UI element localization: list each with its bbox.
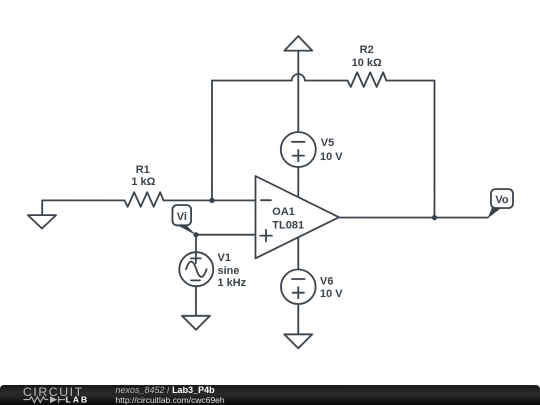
footer bar: [0, 385, 540, 405]
ground (below V1): [182, 316, 210, 330]
wire: VCC stem down through hop to V5: [297, 51, 299, 132]
wire: Vi node down to V1: [195, 235, 197, 253]
resistor R1: [124, 192, 163, 207]
V5 plus sign: [293, 155, 304, 157]
junction node output: [432, 215, 437, 220]
svg-text:Vo: Vo: [495, 194, 509, 206]
V6 plus sign: [293, 292, 304, 294]
V1 sine wave: [186, 262, 207, 277]
wire: V6 to ground: [297, 304, 299, 334]
power arrow (VCC): [284, 36, 312, 51]
svg-text:Vi: Vi: [177, 211, 187, 223]
wire: output wire: [339, 217, 488, 219]
voltage source V6: [281, 269, 316, 304]
svg-text:10 V: 10 V: [320, 288, 343, 300]
junction node Vi: [193, 232, 198, 237]
svg-text:LAB: LAB: [66, 394, 90, 404]
wire: top wire left segment with hop: [212, 74, 348, 81]
svg-text:V5: V5: [321, 137, 334, 149]
voltage source V5: [281, 132, 316, 167]
V6 minus sign: [292, 278, 305, 280]
logo diode cathode bar and wire: [58, 396, 60, 403]
svg-text:R2: R2: [360, 44, 374, 56]
wire: Vi node to op-amp non-inverting input: [196, 234, 256, 236]
svg-text:R1: R1: [136, 164, 150, 176]
wire: left ground riser and input wire to R1: [42, 200, 124, 215]
svg-text:1 kΩ: 1 kΩ: [131, 176, 155, 188]
junction node at inverting input: [209, 198, 214, 203]
svg-text:TL081: TL081: [272, 220, 304, 232]
wire: R1 to op-amp inverting input: [163, 199, 255, 201]
wire: op-amp bottom edge to V6: [297, 237, 299, 269]
logo diode triangle: [50, 396, 57, 403]
node flag Vi: [172, 205, 196, 235]
op-amp plus input marker: [260, 235, 272, 237]
node flag Vo: [488, 189, 513, 218]
svg-text:sine: sine: [217, 265, 239, 277]
ground (left input): [28, 215, 56, 228]
wire: V5 to op-amp top edge: [297, 167, 299, 197]
svg-text:OA1: OA1: [272, 206, 295, 218]
op-amp minus input marker: [261, 199, 271, 201]
V1 plus sign: [191, 257, 201, 259]
wire: R2 to right corner: [386, 80, 434, 82]
ground (below V6): [284, 334, 312, 348]
svg-text:V6: V6: [320, 275, 333, 287]
wire: feedback left vertical: [211, 81, 213, 201]
resistor R2: [347, 72, 386, 87]
CircuitLab logo: [0, 385, 100, 405]
svg-text:10 kΩ: 10 kΩ: [352, 57, 382, 69]
wire: V1 to ground: [195, 286, 197, 316]
wire: right vertical to output: [433, 81, 435, 218]
V1 minus sign: [191, 279, 200, 281]
svg-text:V1: V1: [217, 252, 230, 264]
V5 minus sign: [292, 141, 305, 143]
svg-text:10 V: 10 V: [320, 151, 343, 163]
logo resistor zigzag: [23, 396, 65, 403]
svg-text:1 kHz: 1 kHz: [217, 277, 246, 289]
op-amp OA1 triangle: [255, 176, 339, 258]
voltage source V1 (sine): [179, 252, 213, 286]
